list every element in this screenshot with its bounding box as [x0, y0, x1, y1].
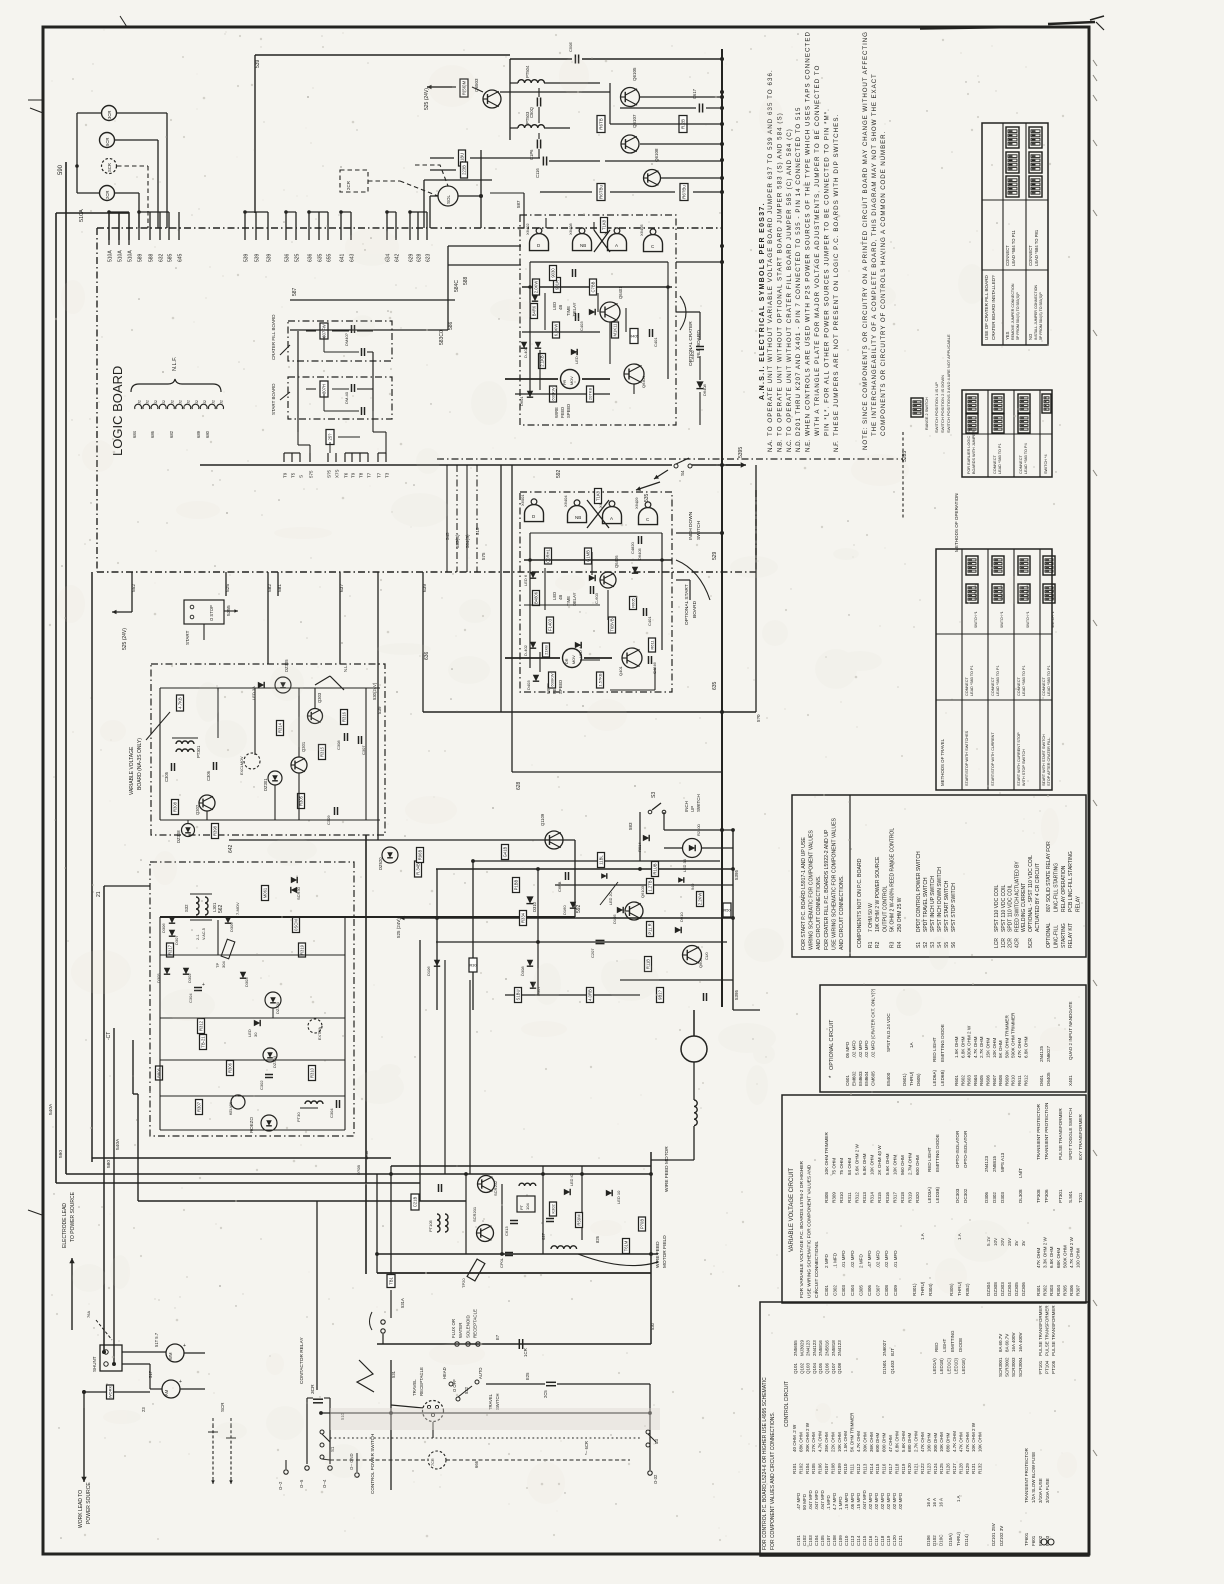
svg-text:581: 581 [277, 584, 283, 592]
svg-text:START/STOP WITH SWITCHES: START/STOP WITH SWITCHES [965, 730, 969, 786]
crater board resistor 807FW [320, 323, 328, 339]
crater board wires [297, 331, 299, 432]
svg-text:.047 MFD: .047 MFD [814, 1489, 819, 1510]
travel receptacle [423, 1401, 444, 1422]
svg-text:500K OHM: 500K OHM [1062, 1245, 1067, 1268]
svg-text:T9: T9 [283, 472, 288, 478]
svg-text:2N5816: 2N5816 [825, 1340, 830, 1356]
svg-text:T5: T5 [291, 472, 296, 478]
svg-text:S: S [299, 475, 304, 478]
svg-text:Q6103: Q6103 [640, 885, 645, 898]
svg-text:C401: C401 [653, 337, 658, 347]
vv board contents [177, 695, 184, 711]
resistor R6405 [629, 329, 639, 344]
svg-text:PULSE TRANSFORMER: PULSE TRANSFORMER [1045, 1305, 1050, 1356]
svg-text:R108: R108 [830, 1463, 835, 1474]
svg-text:100 OHM: 100 OHM [1076, 1248, 1081, 1268]
svg-text:T61M: T61M [624, 1240, 629, 1251]
transistor Q6108 [644, 170, 661, 187]
wire to solenoid [480, 150, 482, 228]
svg-text:R4: R4 [897, 941, 903, 948]
svg-text:36K OHM: 36K OHM [869, 1432, 874, 1452]
O-32 bottom right [648, 1471, 652, 1475]
svg-text:O--2: O--2 [278, 1481, 283, 1490]
svg-text:R310: R310 [310, 1067, 315, 1078]
svg-text:R6?Bu: R6?Bu [682, 185, 687, 199]
svg-text:Q401: Q401 [618, 665, 623, 676]
shunt dashed pointer [96, 1320, 112, 1340]
svg-text:628: 628 [417, 253, 423, 262]
svg-text:623: 623 [426, 253, 432, 262]
svg-text:2 MFD: 2 MFD [824, 1254, 829, 1268]
resistor R6501 label [460, 79, 468, 97]
transformer PT301 [176, 741, 194, 744]
svg-text:START WITH CURRENT STOP: START WITH CURRENT STOP [1017, 732, 1021, 786]
cap CP0L [505, 1252, 513, 1254]
svg-text:6.8K OHM: 6.8K OHM [960, 1036, 965, 1058]
svg-text:DZ308: DZ308 [993, 1282, 998, 1296]
svg-text:525 (24V)2: 525 (24V)2 [396, 915, 401, 938]
bottom cluster verticals [376, 1174, 378, 1273]
svg-text:100 OHM: 100 OHM [926, 1432, 931, 1452]
svg-text:.047 MFD: .047 MFD [820, 1489, 825, 1510]
svg-text:OPTIONAL START: OPTIONAL START [684, 584, 690, 625]
svg-text:LN/T: LN/T [1018, 1168, 1023, 1178]
svg-text:R112: R112 [856, 1463, 861, 1474]
svg-text:582: 582 [267, 584, 273, 592]
svg-text:R605: R605 [979, 1075, 984, 1086]
net -CT wire [113, 1028, 115, 1364]
svg-text:C309: C309 [893, 1285, 898, 1296]
nand gate X6404 B [568, 500, 587, 523]
svg-text:N.L.: N.L. [343, 664, 348, 672]
resistor R6411 [601, 218, 608, 233]
svg-text:250 OHM 25 W: 250 OHM 25 W [897, 897, 903, 932]
svg-text:1CR: 1CR [523, 1348, 528, 1357]
svg-text:180A: 180A [364, 1150, 369, 1160]
cap C403 [575, 313, 577, 321]
svg-text:300 OHM: 300 OHM [933, 1432, 938, 1452]
svg-text:S3: S3 [651, 792, 657, 798]
svg-text:R314: R314 [278, 722, 283, 733]
svg-text:METHODS OF OPERATION: METHODS OF OPERATION [954, 493, 959, 552]
svg-text:R110: R110 [843, 1463, 848, 1474]
svg-text:S32: S32 [184, 904, 189, 912]
svg-text:LEAD *583 TO P1: LEAD *583 TO P1 [998, 443, 1002, 474]
svg-text:FOR CONTROL P.C. BOARD L5224-6: FOR CONTROL P.C. BOARD L5224-6 OR HIGHER… [762, 1377, 768, 1550]
resistor 9030 label [550, 266, 557, 281]
scr pair [291, 877, 297, 883]
svg-text:Q103: Q103 [806, 1362, 811, 1374]
svg-text:R106: R106 [818, 1463, 823, 1474]
box: variable voltage circuit [782, 1095, 1086, 1303]
svg-text:.047 MFD: .047 MFD [862, 1489, 867, 1510]
svg-text:DM-40: DM-40 [344, 391, 349, 404]
svg-text:75 OHM: 75 OHM [839, 1158, 844, 1175]
inch up switch S3 [652, 803, 661, 810]
svg-text:10K OHM: 10K OHM [837, 1432, 842, 1452]
svg-text:FOR CRATER FILL P.C. BOARDS L5: FOR CRATER FILL P.C. BOARDS L5922-2 AND … [824, 829, 830, 950]
svg-text:.02 MFD: .02 MFD [868, 1492, 873, 1510]
svg-text:SPST 110 VDC COIL: SPST 110 VDC COIL [1001, 884, 1007, 932]
svg-text:R3: R3 [890, 941, 896, 948]
resistor R306 [227, 1061, 234, 1076]
led 30 [254, 1020, 260, 1026]
motor wires [693, 1062, 695, 1100]
svg-text:R398: R398 [213, 825, 218, 836]
svg-text:4.7K OHM: 4.7K OHM [818, 1431, 823, 1452]
svg-text:R59M: R59M [577, 1214, 582, 1226]
cap C4846 [648, 656, 650, 664]
svg-text:WITH STOP SWITCH: WITH STOP SWITCH [1022, 749, 1026, 786]
svg-text:DZ303: DZ303 [272, 1055, 277, 1068]
svg-text:D6405: D6405 [1046, 1072, 1051, 1086]
svg-text:WATER: WATER [458, 1323, 463, 1338]
svg-text:901K: 901K [555, 280, 560, 290]
variable voltage board dash-dot box upper [151, 664, 385, 835]
svg-text:SCR3004: SCR3004 [1018, 1357, 1023, 1377]
svg-text:.02 MFD: .02 MFD [864, 1040, 869, 1058]
svg-text:MPS A13: MPS A13 [1000, 1152, 1005, 1172]
svg-text:R311: R311 [847, 1192, 852, 1203]
cap c302 [546, 1218, 554, 1220]
svg-text:R302: R302 [1043, 1285, 1048, 1296]
svg-text:R316: R316 [885, 1192, 890, 1203]
svg-text:104: 104 [525, 1203, 530, 1210]
svg-text:4.7K OHM: 4.7K OHM [952, 1431, 957, 1452]
svg-text:S1BU: S1BU [516, 990, 521, 1001]
svg-text:R320: R320 [915, 1192, 920, 1203]
svg-text:LED IC: LED IC [570, 1174, 574, 1186]
svg-text:.02 MFD: .02 MFD [880, 1492, 885, 1510]
svg-text:R319: R319 [908, 1192, 913, 1203]
start board small dash-dot box [288, 377, 392, 419]
svg-text:C107: C107 [826, 1535, 831, 1546]
svg-text:CM605: CM605 [871, 1071, 876, 1086]
stubs below logic board [131, 572, 133, 596]
contact circles 5 4 [305, 1466, 309, 1470]
svg-text:N.B.: N.B. [776, 440, 783, 452]
svg-text:.02 MFD (CRATER CKT. ONLY(?): .02 MFD (CRATER CKT. ONLY(?) [871, 988, 876, 1058]
svg-text:C301: C301 [824, 1285, 829, 1296]
transformer PT105 [437, 1214, 440, 1232]
svg-text:PULSE TRANSFORMER: PULSE TRANSFORMER [1038, 1305, 1043, 1356]
svg-text:DZ620: DZ620 [378, 857, 383, 870]
svg-text:CIRCUIT CONNECTIONS.: CIRCUIT CONNECTIONS. [814, 1241, 820, 1298]
coil K302 [550, 1202, 557, 1216]
svg-text:2.7K OHM: 2.7K OHM [979, 1036, 984, 1058]
svg-text:539: 539 [244, 253, 250, 262]
svg-text:627: 627 [541, 1232, 546, 1240]
svg-text:3.3K OHM 2 W: 3.3K OHM 2 W [1043, 1236, 1048, 1268]
svg-text:10K OHM: 10K OHM [870, 1155, 875, 1175]
svg-text:C4820: C4820 [630, 541, 635, 554]
svg-text:R96B: R96B [418, 850, 423, 861]
svg-text:2N4123: 2N4123 [837, 1340, 842, 1356]
svg-text:4CR: 4CR [1014, 938, 1020, 948]
transistor Q1109 [545, 831, 563, 849]
svg-text:2C5: 2C5 [543, 1390, 548, 1398]
svg-text:SWITCH: SWITCH [696, 794, 701, 812]
svg-text:R352): R352) [965, 1283, 970, 1296]
svg-text:R307: R307 [1076, 1285, 1081, 1296]
svg-text:16 A: 16 A [932, 1498, 937, 1507]
svg-text:R319: R319 [300, 944, 305, 955]
svg-text:2N5816: 2N5816 [818, 1340, 823, 1356]
svg-text:RED: RED [934, 1342, 939, 1352]
svg-text:SOL: SOL [446, 194, 451, 204]
slanted TP20 [467, 1259, 485, 1281]
svg-text:5K OHM TRIMMER: 5K OHM TRIMMER [850, 1412, 855, 1452]
svg-text:L301: L301 [212, 902, 217, 912]
svg-text:LED1C): LED1C) [946, 1357, 951, 1374]
svg-text:583(S): 583(S) [455, 534, 460, 548]
svg-text:SCR: SCR [107, 163, 112, 172]
svg-text:TP306: TP306 [1044, 1189, 1049, 1203]
svg-text:TP20: TP20 [461, 1278, 466, 1288]
flux circles row [455, 1342, 459, 1346]
svg-text:TP: TP [215, 963, 220, 968]
svg-text:R310: R310 [839, 1192, 844, 1203]
svg-text:R405: R405 [629, 333, 639, 338]
net 587 wire 2 [589, 160, 591, 170]
svg-text:2.0KW: 2.0KW [534, 281, 539, 294]
svg-text:DELAY: DELAY [572, 592, 577, 606]
optional crater fill board dash-dot box [520, 215, 676, 425]
svg-text:510A: 510A [128, 250, 134, 262]
svg-text:R602: R602 [960, 1075, 965, 1086]
svg-text:689: 689 [196, 430, 201, 438]
resistor P70B [639, 1217, 646, 1231]
svg-text:SCR201: SCR201 [472, 1206, 477, 1222]
svg-text:575: 575 [309, 470, 314, 478]
svg-text:R308: R308 [173, 801, 178, 812]
svg-text:R306: R306 [228, 1062, 233, 1073]
resistor R319 [299, 943, 306, 957]
svg-text:D10A): D10A) [948, 1533, 953, 1546]
svg-text:B4806: B4806 [534, 591, 539, 604]
svg-text:SWITCH *1: SWITCH *1 [974, 611, 978, 628]
wire feed motor circle [681, 1036, 707, 1062]
svg-text:LED6B): LED6B) [940, 1069, 945, 1086]
svg-text:CONNECT: CONNECT [965, 677, 969, 696]
svg-text:R603: R603 [967, 1075, 972, 1086]
svg-text:C303: C303 [841, 1285, 846, 1296]
relay circle R2100 [683, 839, 702, 858]
svg-text:TO POWER SOURCE: TO POWER SOURCE [70, 1191, 76, 1242]
slanted pot [221, 939, 235, 959]
svg-text:D601): D601) [902, 1073, 907, 1086]
cap C6403 [572, 269, 574, 277]
resistor R30 col [469, 958, 477, 972]
svg-text:DZ300: DZ300 [275, 1001, 280, 1014]
svg-text:R116: R116 [882, 1463, 887, 1474]
cap C401 [649, 329, 651, 337]
svg-text:53: 53 [654, 1439, 659, 1444]
svg-text:D160: D160 [562, 905, 567, 915]
wire 5?0 vertical [755, 465, 757, 712]
diode D6408 [696, 381, 703, 388]
svg-text:REED SWITCH ACTUATED BY: REED SWITCH ACTUATED BY [1014, 861, 1020, 932]
svg-text:R125: R125 [939, 1463, 944, 1474]
svg-text:J2: J2 [203, 400, 207, 404]
svg-text:629: 629 [409, 253, 415, 262]
svg-text:*: * [829, 1075, 835, 1078]
svg-text:VARIABLE VOLTAGE CIRCUIT: VARIABLE VOLTAGE CIRCUIT [789, 1168, 795, 1252]
svg-text:R313: R313 [862, 1192, 867, 1203]
svg-text:STOP AFTER CRATER FILL: STOP AFTER CRATER FILL [1047, 737, 1051, 786]
svg-text:Q101: Q101 [793, 1362, 798, 1374]
svg-text:O-32: O-32 [653, 1474, 658, 1484]
svg-text:47K OHM: 47K OHM [965, 1432, 970, 1452]
svg-text:E5400: E5400 [886, 1072, 891, 1086]
svg-text:S?5: S?5 [327, 469, 332, 478]
meter wires [122, 1351, 166, 1353]
svg-text:C105: C105 [820, 1535, 825, 1546]
svg-text:-CT: -CT [106, 1032, 112, 1040]
svg-text:21: 21 [96, 891, 102, 897]
resistor 21KB start [543, 643, 550, 657]
corner wires left [423, 180, 425, 228]
resistor C0RH [545, 548, 552, 564]
svg-text:R123: R123 [926, 1463, 931, 1474]
svg-text:5K OHM 2 W-400% REED RANGE CON: 5K OHM 2 W-400% REED RANGE CONTROL [890, 828, 896, 932]
svg-text:METHODS OF TRAVEL: METHODS OF TRAVEL [940, 738, 945, 786]
svg-text:SWITCH: SWITCH [696, 521, 702, 540]
svg-text:807H: 807H [322, 384, 327, 394]
svg-text:DZ306: DZ306 [1021, 1282, 1026, 1296]
svg-text:N.F.: N.F. [833, 441, 840, 452]
bus 5395 vertical [732, 830, 734, 1010]
svg-text:35K OHM: 35K OHM [824, 1432, 829, 1452]
svg-text:R317: R317 [168, 944, 173, 955]
svg-text:R114: R114 [869, 1463, 874, 1474]
svg-text:585: 585 [168, 253, 174, 262]
svg-text:826: 826 [595, 1235, 600, 1243]
svg-text:PT301: PT301 [1058, 1189, 1063, 1203]
svg-text:5395: 5395 [734, 869, 739, 880]
svg-text:NO: NO [1028, 333, 1033, 340]
svg-text:SCR3003: SCR3003 [1011, 1357, 1016, 1377]
svg-text:F601: F601 [1031, 1535, 1036, 1546]
diode D6403 [521, 342, 527, 348]
svg-text:USE WIRING SCHEMATIC FOR COMPO: USE WIRING SCHEMATIC FOR COMPONENT VALUE… [807, 1164, 813, 1298]
svg-text:5395: 5395 [734, 989, 739, 1000]
svg-text:Q6107: Q6107 [632, 114, 637, 128]
svg-text:D-40Z: D-40Z [523, 346, 528, 358]
resistor 600KW start [549, 672, 556, 688]
svg-text:D601: D601 [519, 396, 524, 406]
bottom cluster row 1273 thick [377, 1272, 651, 1274]
svg-text:MJ3029: MJ3029 [799, 1339, 804, 1356]
svg-text:O OFF: O OFF [452, 1379, 457, 1392]
svg-text:SWITCH POSITIONS 3 AND 4 ARE N: SWITCH POSITIONS 3 AND 4 ARE NOT APPLICA… [946, 334, 951, 433]
svg-text:8A 60.7V: 8A 60.7V [998, 1334, 1003, 1352]
left bottom stubs [284, 1470, 288, 1474]
svg-text:5395: 5395 [738, 447, 744, 458]
svg-text:PT301: PT301 [196, 745, 201, 758]
diode D6405 [632, 567, 638, 573]
svg-text:C-603: C-603 [594, 592, 599, 604]
svg-text:C305: C305 [858, 1285, 863, 1296]
svg-text:C601: C601 [845, 1075, 850, 1086]
svg-text:D1N01: D1N01 [882, 1359, 887, 1374]
svg-text:539: 539 [255, 253, 261, 262]
svg-text:76A: 76A [86, 1311, 91, 1318]
svg-text:J2: J2 [146, 400, 150, 404]
svg-text:2K OHM 40 W: 2K OHM 40 W [877, 1145, 882, 1175]
diodes D305 D302 [164, 968, 170, 974]
cap C207 [596, 939, 605, 941]
relay SCR dashed circle [102, 159, 117, 174]
svg-text:PULSE TRANSFORMER: PULSE TRANSFORMER [1058, 1108, 1063, 1160]
svg-text:R102: R102 [798, 1463, 803, 1474]
coil cluster left vertical [509, 59, 511, 140]
svg-text:SWITCH *4: SWITCH *4 [1044, 454, 1048, 474]
svg-text:C: C [651, 244, 655, 249]
wire top horizontal 539 [255, 54, 510, 56]
svg-text:540A: 540A [48, 1103, 54, 1115]
svg-text:C207: C207 [590, 948, 595, 958]
svg-text:LED 6: LED 6 [523, 574, 528, 586]
svg-text:50K OHM TRIMMER: 50K OHM TRIMMER [1004, 1015, 1009, 1058]
svg-text:N.E.: N.E. [805, 440, 812, 452]
top wires to bus [500, 91, 610, 93]
svg-text:30K OHM 2 W: 30K OHM 2 W [805, 1422, 810, 1452]
svg-text:9B1?: 9B1? [658, 989, 663, 999]
svg-text:DZ102 3V: DZ102 3V [999, 1526, 1004, 1546]
svg-text:75 OHM: 75 OHM [832, 1158, 837, 1175]
svg-text:4.7 MFD: 4.7 MFD [832, 1492, 837, 1510]
svg-text:635: 635 [712, 681, 718, 690]
cap C402 start [643, 608, 645, 616]
svg-text:Q302: Q302 [195, 804, 200, 815]
svg-text:Q108: Q108 [837, 1362, 842, 1374]
svg-text:C306: C306 [206, 770, 211, 781]
nand gate X6402 A [530, 228, 549, 251]
svg-text:5CR: 5CR [1028, 938, 1034, 948]
PT 104 box [517, 1196, 535, 1212]
earlier logic DIP icons [966, 394, 978, 413]
row 1413 wire [321, 1412, 650, 1414]
lower control dash-dot box [150, 862, 354, 1136]
svg-text:R014: R014 [637, 842, 642, 852]
svg-text:583C0: 583C0 [439, 330, 445, 345]
svg-text:RELAY OPERATION: RELAY OPERATION [1061, 865, 1067, 912]
net 642 wire [229, 839, 575, 841]
svg-text:510A: 510A [108, 250, 114, 262]
svg-text:LED1E): LED1E) [961, 1358, 966, 1374]
svg-text:WIRE FEED MOTOR: WIRE FEED MOTOR [664, 1146, 670, 1192]
svg-text:586: 586 [448, 321, 454, 330]
svg-text:C114: C114 [856, 1535, 861, 1546]
svg-text:LED: LED [247, 1029, 252, 1037]
svg-text:1/2A SLOW BLOW FUSE: 1/2A SLOW BLOW FUSE [1031, 1452, 1036, 1503]
crater fill board small dash-dot box [288, 321, 392, 361]
svg-text:EMITTING DIODE: EMITTING DIODE [940, 1024, 945, 1062]
svg-text:C103: C103 [808, 1535, 813, 1546]
svg-text:MOV: MOV [570, 376, 574, 385]
transistor Q302 [199, 795, 215, 811]
cap C307 [358, 736, 360, 744]
cap near C210 [438, 1184, 440, 1192]
svg-text:R101: R101 [792, 1463, 797, 1474]
svg-text:.15 MFD: .15 MFD [844, 1492, 849, 1510]
svg-text:C116: C116 [535, 168, 540, 178]
svg-text:C101: C101 [796, 1535, 801, 1546]
svg-text:THRU): THRU) [909, 1071, 914, 1086]
start board jumper rect [326, 430, 334, 445]
